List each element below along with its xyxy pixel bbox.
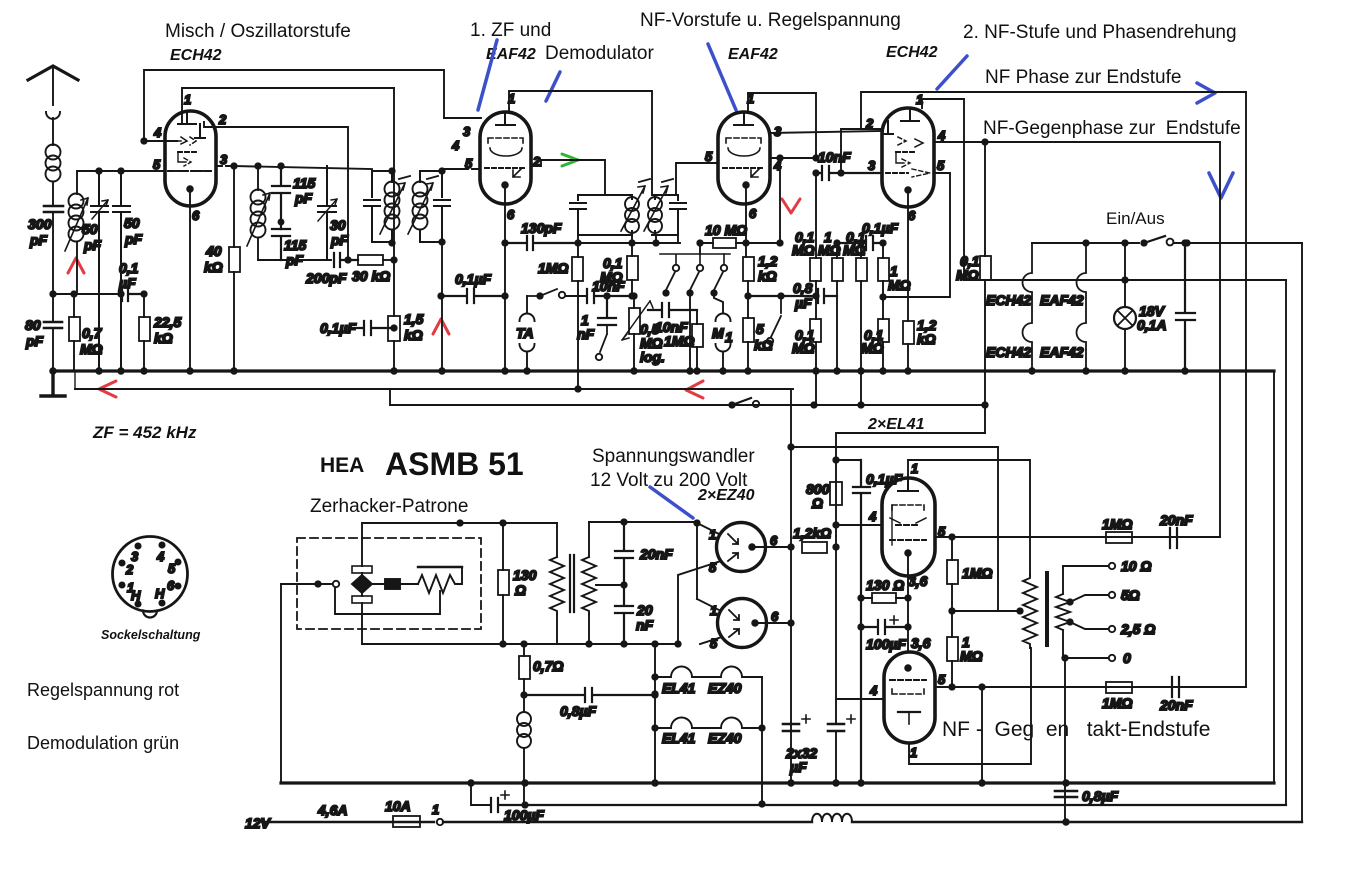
wire T3 cathode (745, 185, 747, 243)
vibrator transformer primary winding (550, 523, 564, 614)
wire right drop x1274 (bus to bottom bus) (1273, 371, 1275, 783)
wire T4 pin1 (922, 99, 964, 108)
socket heater pins H H (135, 601, 140, 606)
heater jumper EL41 EZ40 lower (655, 718, 762, 729)
svg-text:1MΩ: 1MΩ (1102, 695, 1132, 711)
rectifier tube EZ40 upper (717, 523, 766, 572)
svg-text:20: 20 (636, 602, 653, 618)
wire x1302 switch to 12V (1301, 243, 1303, 822)
T6 internals (905, 665, 911, 671)
band switch 1 (660, 254, 730, 264)
svg-text:80: 80 (25, 317, 41, 333)
svg-text:EZ40: EZ40 (708, 680, 742, 696)
svg-text:2: 2 (218, 112, 227, 127)
resistor 30k (series) (358, 255, 383, 265)
svg-text:MΩ: MΩ (818, 242, 841, 258)
svg-text:pF: pF (25, 333, 44, 349)
svg-text:ZF = 452 kHz: ZF = 452 kHz (92, 423, 197, 442)
wire y447 B+ rail (791, 446, 998, 448)
svg-text:MΩ: MΩ (960, 648, 983, 664)
svg-text:2: 2 (125, 562, 134, 577)
resistor 1M (x883) (878, 258, 889, 281)
svg-text:0,1A: 0,1A (1137, 317, 1167, 333)
svg-text:2,5 Ω: 2,5 Ω (1120, 621, 1155, 637)
svg-text:log.: log. (640, 349, 665, 365)
resistor 1M T5 grid leak (947, 560, 958, 584)
svg-text:6: 6 (770, 533, 778, 548)
wire x1286 drop (1285, 280, 1287, 804)
svg-text:5: 5 (705, 149, 713, 164)
switch below 1nF (600, 325, 607, 352)
blue arrow down (NF-Gegenphase) (1209, 173, 1233, 198)
svg-text:µF: µF (118, 275, 136, 291)
socket pin 4 (159, 542, 164, 547)
blue pointer line to T3 (NF-Vorstufe) (708, 44, 736, 110)
vibrator drive contact (333, 581, 339, 587)
switch on rail y405 (729, 402, 734, 407)
svg-text:100µF: 100µF (504, 807, 544, 823)
svg-text:pF: pF (124, 231, 143, 247)
svg-text:pF: pF (294, 190, 313, 206)
svg-text:20nF: 20nF (1159, 697, 1193, 713)
ground (41, 371, 65, 396)
tuned input coil with arrow (76, 171, 78, 194)
svg-text:115: 115 (293, 175, 316, 191)
capacitor 50pF (113, 171, 130, 371)
capacitor 0,1uF screen (837, 236, 883, 250)
T2 internals (496, 112, 515, 125)
svg-text:1: 1 (725, 329, 733, 345)
blue pointer line to Spannungswandler (650, 487, 693, 518)
resistor 1M detector load (572, 257, 583, 281)
wire IFT1 secondary to T2 grid (442, 168, 462, 170)
svg-text:6: 6 (167, 578, 175, 593)
svg-text:TA: TA (516, 325, 534, 341)
svg-text:2×EZ40: 2×EZ40 (697, 487, 755, 504)
wire T3 pin3 AVC out (770, 131, 882, 133)
tube socket diagram circle (113, 537, 188, 612)
svg-text:1: 1 (910, 745, 917, 760)
svg-text:0,8: 0,8 (793, 280, 813, 296)
wire T1 pin6 cathode to bus (189, 189, 191, 371)
wire AVC riser x780 (779, 158, 781, 243)
svg-text:0,7Ω: 0,7Ω (533, 658, 563, 674)
wire y460 anode rail to transformer top (836, 460, 1030, 575)
svg-text:EL41: EL41 (662, 730, 696, 746)
T5 cathode chain (907, 553, 909, 652)
svg-text:Ω: Ω (514, 582, 526, 598)
svg-text:MΩ: MΩ (80, 341, 103, 357)
svg-text:3,6: 3,6 (908, 573, 928, 589)
pilot lamp 18V 0,1A (1114, 307, 1136, 329)
T6 pin5 wire to feedback (935, 686, 1246, 688)
band switch 2 (699, 254, 701, 264)
svg-text:ASMB 51: ASMB 51 (385, 446, 524, 482)
resistor 0,1M (x985) (980, 256, 991, 280)
wire lamp branch x1125 (1124, 243, 1126, 371)
svg-text:H: H (155, 586, 165, 601)
svg-text:1MΩ: 1MΩ (962, 565, 992, 581)
output tube T5 EL41 envelope (882, 478, 935, 576)
junction dots input (50, 291, 55, 296)
capacitor 20nF upper (615, 522, 633, 585)
svg-text:Sockelschaltung: Sockelschaltung (101, 628, 201, 642)
trimmer capacitor 30pF (318, 166, 336, 260)
band switch 3 (723, 254, 725, 264)
svg-text:12V: 12V (245, 815, 272, 831)
green arrow right (Demodulation) (562, 154, 578, 166)
svg-text:NF-Vorstufe u. Regelspannung: NF-Vorstufe u. Regelspannung (640, 10, 901, 31)
blue arrow right (NF Phase) (1197, 83, 1215, 103)
blue pointer line to T2 (1. ZF) (478, 40, 497, 110)
svg-text:130: 130 (513, 567, 537, 583)
svg-text:10nF: 10nF (818, 149, 851, 165)
resistor 1,2k (series HT) (802, 542, 827, 553)
svg-text:MΩ: MΩ (888, 277, 911, 293)
wire T4 pin4 NF-Gegenphase y142 (934, 141, 1220, 143)
blue pointer line to T4 (2. NF-Stufe) (937, 56, 967, 89)
output transformer core (1045, 573, 1049, 645)
output transformer primary (1023, 575, 1037, 648)
socket pin 1 (119, 582, 124, 587)
svg-text:3: 3 (463, 124, 471, 139)
wire IFT2 bottoms to detector rail (578, 235, 678, 243)
T5 internals (898, 478, 918, 491)
T6 grid wire pin4 (836, 698, 884, 700)
potentiometer 0,5M log volume (629, 308, 640, 334)
heater chain jigsaw right (EAF42 column) (1077, 243, 1087, 371)
wire T3 pin4 (770, 157, 816, 159)
main ground bus y371 (53, 369, 1274, 372)
12V input line (262, 821, 434, 823)
svg-text:4: 4 (156, 549, 165, 564)
resistor 1M grid (692, 324, 703, 347)
capacitor 0,8uF (524, 688, 655, 702)
resistor 0,1M (x861) (856, 258, 867, 281)
svg-text:Demodulation grün: Demodulation grün (27, 733, 179, 753)
vibrator transformer secondary winding (582, 522, 596, 614)
red arrow up (Regelspannung) near 1,5k (433, 319, 449, 334)
resistor 22,5k (139, 317, 150, 341)
bus junction dots (50, 368, 56, 374)
tap 5 ohm (1067, 599, 1072, 604)
feedback capacitor 20nF upper (1170, 528, 1177, 548)
wire screen feed into T2 pin4 (444, 117, 481, 119)
IFT1 secondary unit (coil + cap) (420, 171, 450, 242)
svg-text:5: 5 (938, 672, 946, 687)
svg-text:MΩ: MΩ (792, 242, 815, 258)
svg-text:100µF: 100µF (866, 636, 906, 652)
wire vibrator left drop x281 (280, 584, 282, 783)
T4 internals (901, 108, 919, 121)
svg-text:EAF42: EAF42 (728, 46, 778, 63)
capacitor 0,1uF T2 cathode (441, 289, 505, 303)
IFT2 primary unit (570, 195, 632, 235)
rectifier tube EZ40 lower (718, 599, 767, 648)
svg-text:Regelspannung rot: Regelspannung rot (27, 680, 179, 700)
svg-text:115: 115 (284, 237, 307, 253)
svg-text:HEA: HEA (320, 454, 364, 477)
svg-text:µF: µF (794, 295, 812, 311)
lower supply rail y804 (to x1286) (835, 804, 837, 806)
capacitor 20nF lower (615, 585, 633, 644)
svg-text:5: 5 (756, 321, 764, 337)
capacitor 100uF electrolytic (491, 798, 1286, 812)
svg-text:0,1: 0,1 (119, 260, 139, 276)
HT rail from rectifiers x791 (790, 389, 792, 783)
tube T2 EAF42 envelope (480, 112, 531, 204)
resistor 1,2k cathode T4 (903, 321, 914, 344)
resistor 0,7M (69, 317, 80, 341)
wire band switch feed (699, 243, 701, 254)
capacitor 0,8uF (748, 289, 837, 303)
antenna (28, 66, 78, 80)
svg-text:H: H (131, 588, 141, 603)
wire EZ40 anode feeds (697, 522, 719, 610)
feedback resistor 1M lower (1106, 682, 1132, 693)
capacitor 1nF (598, 296, 616, 325)
electrolytic 2x32uF pair (783, 724, 799, 731)
svg-text:3: 3 (220, 152, 228, 167)
switched rail y405 (390, 389, 985, 405)
resistor 800 ohm (830, 482, 842, 505)
choke on 12V line (812, 814, 852, 822)
capacitor 80pF (44, 322, 62, 328)
resistor 40k (229, 247, 240, 272)
capacitor 10nF (series) (587, 289, 632, 303)
loudspeaker M1 symbol (716, 314, 731, 371)
svg-text:1,5: 1,5 (404, 311, 424, 327)
svg-text:10 MΩ: 10 MΩ (705, 222, 747, 238)
svg-text:4: 4 (153, 125, 162, 140)
svg-text:kΩ: kΩ (917, 331, 936, 347)
svg-text:Demodulator: Demodulator (545, 43, 654, 64)
svg-text:pF: pF (83, 237, 102, 253)
feedback resistor 1M upper (1106, 532, 1132, 543)
svg-text:0,1µF: 0,1µF (455, 271, 492, 287)
resistor 130 ohm cathode (872, 593, 896, 603)
socket pin 3 (135, 543, 140, 548)
capacitor 100uF cathode (861, 620, 908, 634)
svg-text:MΩ: MΩ (861, 340, 884, 356)
svg-text:nF: nF (636, 617, 654, 633)
wire AVC node y294 (53, 293, 121, 295)
svg-text:NF-Gegenphase zur Endstufe: NF-Gegenphase zur Endstufe (983, 118, 1241, 139)
capacitor 300pF (44, 206, 63, 212)
resistor 1,5k (388, 316, 400, 341)
svg-text:EAF42: EAF42 (1040, 292, 1084, 308)
svg-text:0,8µF: 0,8µF (1082, 788, 1119, 804)
wire T1 pin2 osc grid (204, 122, 348, 260)
svg-text:Zerhacker-Patrone: Zerhacker-Patrone (310, 496, 468, 517)
IFT1 primary unit (cap + coil) (364, 171, 392, 242)
switch TA input (527, 289, 557, 296)
svg-text:1: 1 (184, 92, 191, 107)
svg-text:4: 4 (451, 138, 460, 153)
capacitor 0,1uF at T1 cathode (352, 321, 394, 335)
blue pointer line from Demodulator to T2 (546, 72, 560, 101)
wire y805 rail (471, 783, 491, 805)
svg-text:2×EL41: 2×EL41 (867, 416, 925, 433)
wire grid rail y171 (77, 170, 165, 172)
wire T2 pin2 diode out (to green arrow) (531, 160, 605, 195)
resistor 0,7 ohm (519, 656, 530, 679)
svg-text:kΩ: kΩ (404, 327, 423, 343)
svg-text:10 Ω: 10 Ω (1121, 558, 1151, 574)
svg-text:1,2: 1,2 (758, 253, 778, 269)
tap 0 (1062, 655, 1067, 660)
capacitor at lamp (1176, 243, 1195, 371)
svg-text:Spannungswandler: Spannungswandler (592, 446, 755, 467)
svg-text:4,6A: 4,6A (317, 802, 348, 818)
capacitor 130pF (series) (505, 236, 578, 250)
resistor 10M (713, 238, 736, 248)
socket pin 2 (119, 560, 124, 565)
svg-text:30: 30 (330, 217, 346, 233)
wire NF Phase drop x1247 (1245, 92, 1247, 687)
heater rails (655, 644, 762, 804)
svg-text:Ω: Ω (811, 495, 823, 511)
wire T3 pin1 top (748, 93, 816, 158)
svg-text:10nF: 10nF (592, 278, 625, 294)
antenna coil (46, 145, 61, 182)
T3 internals (734, 112, 753, 125)
socket pin 6 (175, 583, 180, 588)
tap 10 ohm (1063, 565, 1108, 567)
svg-text:µF: µF (789, 759, 807, 775)
wire T3 pin5 to IFT2 (676, 163, 718, 195)
svg-text:200pF: 200pF (305, 270, 347, 286)
svg-text:20nF: 20nF (1159, 512, 1193, 528)
svg-text:1: 1 (911, 461, 918, 476)
svg-text:20nF: 20nF (639, 546, 673, 562)
output tube T6 EL41 envelope (884, 652, 935, 743)
svg-text:5: 5 (153, 157, 161, 172)
svg-text:kΩ: kΩ (204, 259, 223, 275)
capacitor 0,1uF (series) (121, 287, 144, 301)
svg-text:1,2kΩ: 1,2kΩ (793, 525, 831, 541)
wire T4 pin5 loop (883, 173, 950, 297)
svg-text:0,7: 0,7 (82, 325, 103, 341)
switch at 5k (771, 296, 781, 337)
wire T4 pin3 grid w/ 10nF (816, 166, 882, 180)
resistor 1M (x837) (832, 258, 843, 281)
wire T4 cathode (907, 190, 909, 321)
svg-text:ECH42: ECH42 (986, 344, 1031, 360)
wire osc feedback x394 (393, 88, 395, 260)
T6 plate wire to transformer (909, 648, 1031, 764)
svg-text:130pF: 130pF (521, 220, 562, 236)
T1 internals (178, 111, 196, 124)
vibrator contact lower plate (352, 596, 372, 603)
svg-text:40: 40 (205, 243, 222, 259)
heater chain jigsaw left (ECH42 column) (1023, 243, 1033, 371)
secondary center tap (596, 584, 624, 586)
anode supply loop y433 (836, 433, 985, 783)
svg-text:ECH42: ECH42 (170, 47, 222, 64)
switch Ein/Aus (1144, 236, 1165, 243)
filter choke coil (523, 695, 525, 805)
socket pin 5 (175, 559, 180, 564)
HT wire y522 to rectifiers (589, 521, 697, 523)
red arrow up (Regelspannung) at input coil (68, 258, 84, 273)
svg-text:Misch / Oszillatorstufe: Misch / Oszillatorstufe (165, 21, 351, 42)
svg-text:4: 4 (937, 128, 946, 143)
svg-text:3,6: 3,6 (911, 635, 931, 651)
svg-text:5: 5 (168, 561, 176, 576)
wire Ein/Aus rail y243 (1032, 242, 1139, 244)
resistor 0,1M lower (x883) (878, 319, 889, 342)
trimmer capacitor 50pF (91, 171, 108, 371)
svg-text:kΩ: kΩ (758, 268, 777, 284)
wire x998 to center tap (952, 447, 1020, 611)
wire T1 pin4 (144, 140, 177, 142)
drive coil zigzag (418, 566, 462, 568)
TA pickup symbol (526, 296, 528, 313)
svg-text:EL41: EL41 (662, 680, 696, 696)
tube T3 EAF42 envelope (718, 112, 770, 204)
capacitor 200pF (series) (334, 253, 358, 267)
transformer core (570, 555, 574, 612)
svg-text:1. ZF und: 1. ZF und (470, 20, 551, 41)
AVC rail y389 (75, 388, 793, 390)
svg-text:5: 5 (937, 158, 945, 173)
wire NF-Gegenphase drop x1221 (1219, 142, 1221, 537)
svg-text:1MΩ: 1MΩ (538, 260, 568, 276)
svg-text:3: 3 (774, 124, 782, 139)
svg-text:6: 6 (192, 208, 200, 223)
svg-text:0,8µF: 0,8µF (560, 703, 597, 719)
tap 2,5 ohm (1067, 619, 1072, 624)
wire NF Phase y92 (861, 92, 1246, 129)
resistor 0,1M lower (x815) (810, 319, 821, 342)
svg-text:4: 4 (869, 683, 878, 698)
svg-text:5: 5 (465, 156, 473, 171)
svg-text:EZ40: EZ40 (708, 730, 742, 746)
svg-text:kΩ: kΩ (154, 330, 173, 346)
wire T4 pin1 riser x964 to Ein/Aus lower rail (963, 99, 965, 280)
capacitor 10nF wiper (648, 303, 697, 317)
svg-text:5Ω: 5Ω (1121, 587, 1140, 603)
svg-text:pF: pF (330, 232, 349, 248)
svg-text:ECH42: ECH42 (886, 44, 938, 61)
fuse 10A (393, 816, 420, 827)
feedback capacitor 20nF lower (1172, 677, 1179, 697)
svg-text:30 kΩ: 30 kΩ (352, 268, 390, 284)
resistor 130 ohm buffer (498, 570, 509, 595)
resistor 0,1M (627, 256, 638, 280)
red arrow down (Regelspannung) at T3 (782, 199, 800, 213)
tube T1 ECH42 envelope (165, 111, 216, 206)
svg-text:300: 300 (28, 216, 52, 232)
vibrator contact upper plate (352, 566, 372, 573)
resistor 0,1M (x815) (810, 258, 821, 281)
wire osc lower rail y260 (258, 259, 331, 261)
zerhacker supply wire y523 (362, 523, 557, 566)
svg-text:22,5: 22,5 (153, 314, 181, 330)
capacitor 115pF upper (272, 166, 290, 229)
capacitor 0,1uF HT (853, 460, 870, 783)
red arrow left on AVC rail (middle) (686, 381, 703, 398)
svg-text:M: M (712, 325, 724, 341)
svg-text:0,1µF: 0,1µF (320, 320, 357, 336)
svg-text:50: 50 (82, 221, 98, 237)
svg-text:130 Ω: 130 Ω (866, 577, 904, 593)
T5 grid wire pin4 (836, 524, 882, 526)
capacitor 0,8uF bottom (1055, 791, 1077, 797)
svg-text:NF Phase zur Endstufe: NF Phase zur Endstufe (985, 67, 1181, 88)
svg-text:nF: nF (577, 326, 595, 342)
